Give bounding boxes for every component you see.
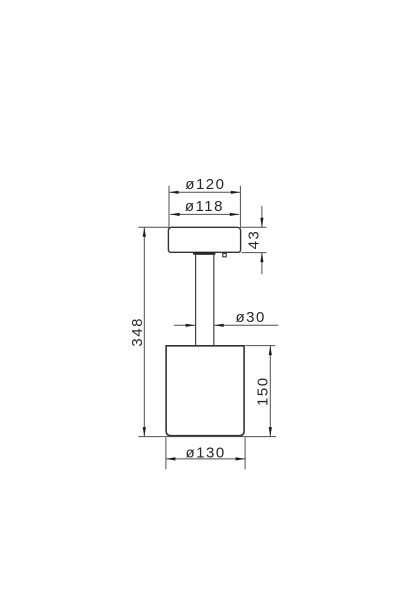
dimension ø120 arrow left	[169, 191, 179, 194]
svg-text:ø118: ø118	[185, 198, 224, 215]
lamp head disc outline	[168, 227, 240, 252]
stem right line	[213, 255, 215, 346]
svg-text:ø30: ø30	[236, 309, 266, 326]
extension line top-right (43 ref)	[240, 226, 267, 228]
dimension ø120 arrow right	[231, 191, 241, 194]
extension line top-left (348 ref)	[138, 226, 169, 228]
dimension 150 extension line top	[246, 345, 276, 347]
dimension 43 arrow top (points down)	[260, 218, 263, 228]
dimension 348 arrow bottom (points down)	[143, 427, 146, 437]
dimension 348 arrow top (points up)	[143, 227, 146, 237]
dimension ø120 extension line right	[239, 186, 241, 227]
stem left line	[195, 255, 197, 346]
dimension 150 arrow bottom (points down)	[269, 427, 272, 437]
dimension ø30 line right segment	[214, 324, 278, 326]
dimension 43 line lower segment	[261, 253, 263, 275]
dimension ø130 line	[166, 458, 245, 460]
switch button	[223, 253, 226, 256]
dimension ø118 arrow right	[230, 213, 240, 216]
dimension 150 line	[269, 346, 271, 437]
extension line bottom (348 and 150 ref)	[138, 436, 276, 438]
dimension 150 arrow top (points up)	[269, 346, 272, 356]
svg-text:348: 348	[129, 317, 146, 347]
dimension ø118 line	[170, 213, 239, 215]
dimension ø130 arrow right	[236, 457, 246, 460]
dimension ø130 extension line right	[244, 437, 246, 469]
dimension 43 line upper segment	[261, 206, 263, 227]
dimension ø30 arrow right (points left at stem)	[214, 324, 224, 327]
dimension ø120 extension line left	[168, 186, 170, 227]
svg-text:43: 43	[245, 230, 262, 250]
dimension ø30 line left segment	[174, 324, 195, 326]
dimension 43 extension line bottom	[242, 252, 267, 254]
dimension 348 line	[143, 227, 145, 436]
dimension ø130 extension line left	[165, 437, 167, 469]
dimension ø118 arrow left	[170, 213, 180, 216]
dimension 43 arrow bottom (points up)	[260, 253, 263, 263]
dimension ø120 line	[169, 191, 240, 193]
base outline	[166, 346, 244, 436]
stem collar bar	[193, 252, 215, 255]
dimension ø30 arrow left (points right at stem)	[186, 324, 196, 327]
svg-text:ø130: ø130	[185, 444, 225, 461]
dimension ø130 arrow left	[166, 457, 176, 460]
svg-text:150: 150	[254, 376, 271, 406]
svg-text:ø120: ø120	[185, 176, 225, 193]
